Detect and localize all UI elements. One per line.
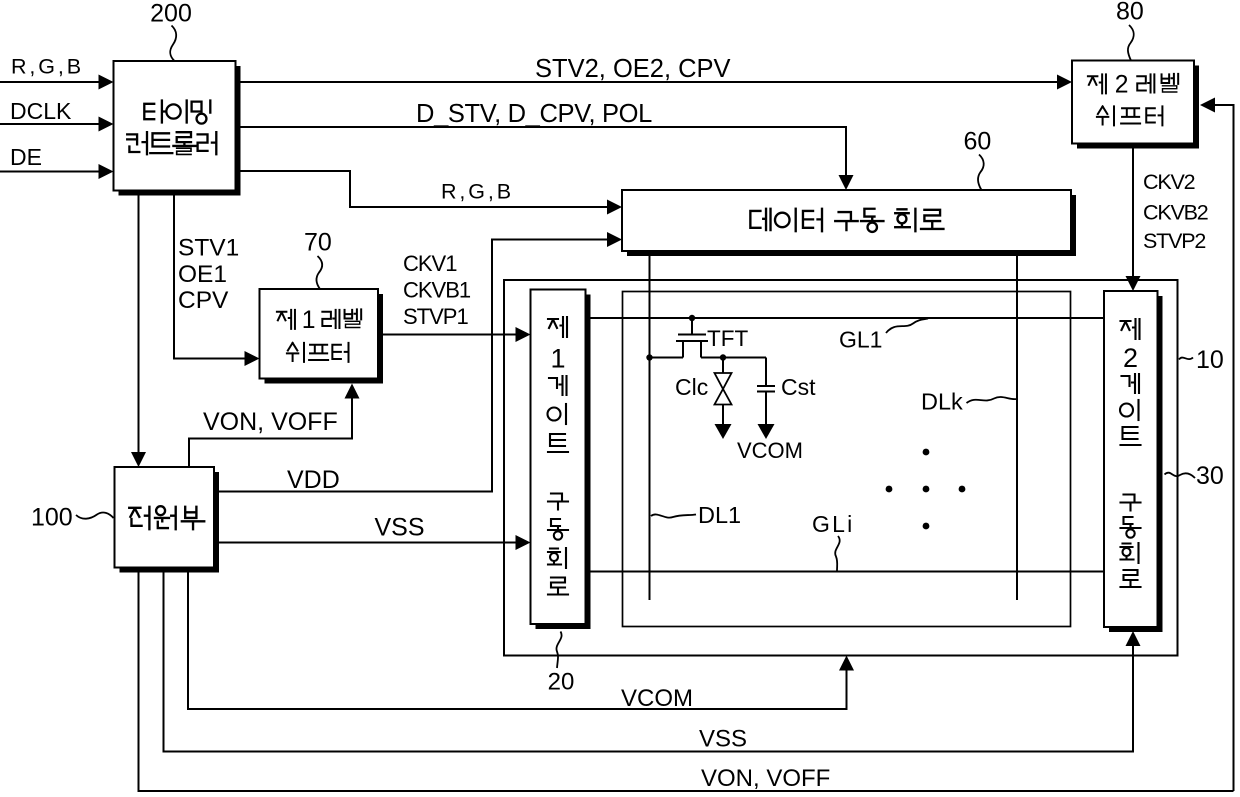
- svg-text:D_STV, D_CPV, POL: D_STV, D_CPV, POL: [416, 100, 652, 128]
- svg-text:TFT: TFT: [707, 326, 748, 351]
- svg-text:VON, VOFF: VON, VOFF: [203, 408, 338, 436]
- svg-text:Clc: Clc: [675, 374, 708, 400]
- svg-text:CKV1: CKV1: [403, 251, 457, 276]
- svg-text:CPV: CPV: [178, 287, 229, 314]
- svg-text:20: 20: [548, 669, 575, 696]
- svg-text:STV2, OE2, CPV: STV2, OE2, CPV: [535, 55, 731, 83]
- svg-text:STVP1: STVP1: [403, 304, 468, 329]
- svg-text:80: 80: [1116, 0, 1144, 26]
- svg-text:DL1: DL1: [698, 502, 741, 528]
- svg-text:CKVB2: CKVB2: [1143, 201, 1208, 225]
- svg-text:VCOM: VCOM: [621, 685, 693, 712]
- svg-text:DE: DE: [10, 144, 42, 170]
- svg-text:2: 2: [1115, 72, 1129, 99]
- svg-text:CKVB1: CKVB1: [403, 278, 471, 303]
- svg-text:200: 200: [150, 0, 192, 28]
- svg-text:STV1: STV1: [178, 235, 239, 262]
- svg-text:VCOM: VCOM: [737, 438, 803, 463]
- svg-text:30: 30: [1196, 462, 1224, 490]
- svg-text:VSS: VSS: [375, 514, 425, 542]
- svg-text:10: 10: [1196, 346, 1224, 374]
- svg-text:CKV2: CKV2: [1143, 170, 1195, 194]
- svg-text:100: 100: [31, 504, 73, 532]
- svg-text:1: 1: [550, 343, 565, 373]
- svg-text:Cst: Cst: [781, 374, 816, 400]
- svg-text:70: 70: [304, 229, 332, 257]
- svg-text:R,G,B: R,G,B: [441, 180, 514, 204]
- svg-text:GL1: GL1: [839, 327, 882, 353]
- svg-text:VDD: VDD: [287, 466, 340, 494]
- svg-text:VON, VOFF: VON, VOFF: [701, 765, 830, 792]
- svg-text:R,G,B: R,G,B: [11, 55, 84, 79]
- svg-text:60: 60: [964, 128, 992, 156]
- svg-text:2: 2: [1123, 343, 1138, 373]
- svg-text:VSS: VSS: [699, 726, 747, 753]
- svg-text:OE1: OE1: [178, 261, 227, 288]
- svg-text:DCLK: DCLK: [10, 98, 72, 124]
- svg-text:STVP2: STVP2: [1143, 229, 1205, 253]
- svg-text:DLk: DLk: [921, 389, 963, 415]
- svg-text:1: 1: [302, 307, 316, 334]
- svg-text:GLi: GLi: [812, 511, 854, 537]
